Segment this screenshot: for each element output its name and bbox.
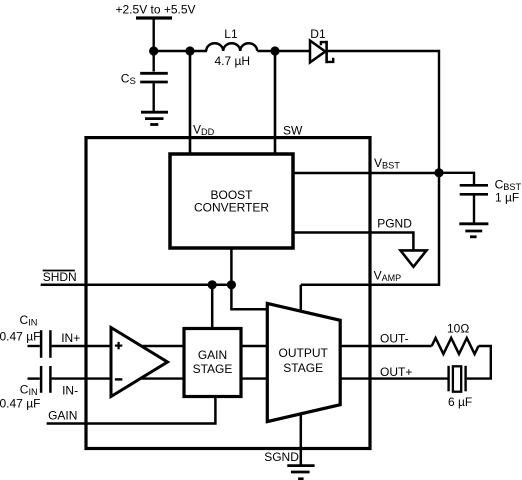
wire GAIN pin	[47, 397, 216, 424]
capacitor CIN top 0.47uF	[41, 330, 50, 358]
op-amp input buffer	[111, 328, 168, 397]
capacitor CS	[140, 73, 168, 82]
node dot SW junction	[270, 46, 279, 55]
svg-text:1 µF: 1 µF	[495, 191, 519, 205]
op-amp minus input mark	[115, 378, 122, 380]
wire VBST to VAMP	[301, 173, 439, 285]
svg-text:SW: SW	[283, 124, 303, 138]
wire resistor to cap	[467, 346, 491, 379]
svg-text:CONVERTER: CONVERTER	[194, 200, 269, 214]
svg-text:L1: L1	[224, 27, 238, 41]
svg-text:IN-: IN-	[62, 383, 78, 397]
capacitor CIN bottom 0.47uF	[41, 366, 50, 393]
wire IN+ to gain stage	[52, 345, 268, 347]
ground SGND	[287, 466, 314, 479]
svg-text:4.7 µH: 4.7 µH	[215, 54, 251, 68]
wire VAMP into output stage	[300, 285, 303, 313]
gain stage block	[184, 329, 241, 397]
svg-text:+2.5V to +5.5V: +2.5V to +5.5V	[116, 3, 196, 17]
resistor 10 ohm	[432, 338, 479, 354]
label GAIN STAGE	[193, 348, 233, 376]
svg-text:SHDN: SHDN	[43, 270, 77, 284]
wire VBST pin	[293, 172, 439, 175]
wire VDD branch	[189, 51, 192, 156]
inductor L1 4.7uH	[206, 43, 257, 51]
wire D1 to VBST corner	[328, 51, 440, 173]
wire IN- to gain stage	[52, 377, 268, 379]
capacitor CBST 1uF	[460, 185, 488, 194]
op-amp plus input mark	[115, 342, 122, 349]
output stage block	[267, 303, 340, 421]
svg-text:OUT-: OUT-	[380, 331, 409, 345]
IC main box U1	[86, 138, 370, 449]
svg-text:6 µF: 6 µF	[448, 395, 472, 409]
wire output stage to SGND	[300, 412, 303, 465]
supply rail bar +2.5V to +5.5V	[136, 16, 172, 19]
wire CBST top lead	[439, 173, 474, 185]
ground CS	[141, 112, 168, 124]
svg-text:PGND: PGND	[377, 217, 412, 231]
node dot supply/CS junction	[149, 46, 158, 55]
svg-text:STAGE: STAGE	[283, 361, 323, 375]
ground PGND open triangle	[401, 250, 427, 266]
wire IN- lead	[28, 377, 40, 379]
svg-text:D1: D1	[310, 27, 326, 41]
wire SHDN to output stage	[231, 285, 268, 310]
node dot SHDN output	[227, 280, 236, 289]
svg-text:SGND: SGND	[264, 450, 299, 464]
wire SHDN pin	[41, 284, 232, 287]
svg-text:0.47 µF: 0.47 µF	[0, 330, 40, 344]
label OUTPUT STAGE	[279, 346, 329, 375]
svg-text:0.47 µF: 0.47 µF	[0, 396, 40, 410]
wire supply to node A	[152, 18, 154, 51]
wire CBST bottom lead	[473, 196, 475, 224]
label BOOST CONVERTER	[194, 188, 269, 215]
diode D1 schottky	[310, 41, 333, 64]
wire PGND pin	[293, 233, 413, 251]
svg-text:10Ω: 10Ω	[447, 322, 469, 336]
node dot VBST junction	[434, 168, 443, 177]
svg-text:STAGE: STAGE	[193, 362, 233, 376]
boost converter block	[170, 154, 293, 248]
svg-text:GAIN: GAIN	[198, 348, 227, 362]
wire node A to L1	[154, 50, 207, 52]
wire OUT+ pin	[340, 377, 448, 379]
wire L1 to D1	[257, 50, 309, 52]
wire OUT- pin	[340, 345, 432, 347]
wire boost converter to SHDN node	[230, 248, 233, 285]
wire CS top lead	[152, 51, 154, 72]
svg-text:IN+: IN+	[61, 331, 80, 345]
node dot VDD junction	[185, 46, 194, 55]
wire IN+ lead	[28, 345, 40, 347]
label SHDN with overbar	[43, 270, 77, 284]
capacitor 6uF piezo	[449, 366, 466, 392]
node dot SHDN gain	[208, 280, 217, 289]
svg-text:GAIN: GAIN	[48, 409, 77, 423]
wire SW branch	[274, 51, 277, 156]
wire CS bottom lead	[152, 83, 154, 112]
wire SHDN to gain stage	[211, 285, 214, 330]
ground CBST	[459, 224, 488, 237]
svg-text:OUT+: OUT+	[380, 365, 412, 379]
svg-text:OUTPUT: OUTPUT	[279, 346, 329, 360]
